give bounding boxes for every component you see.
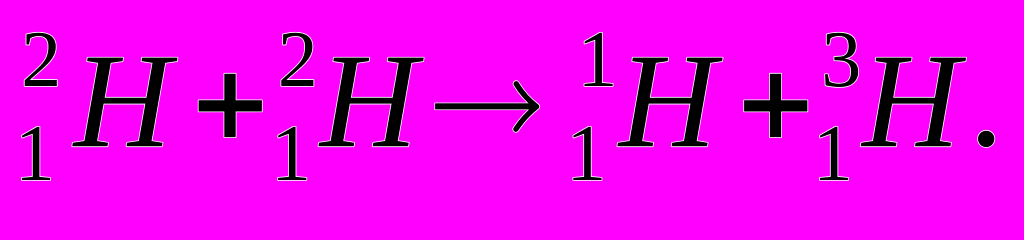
svg-text:H: H: [860, 26, 966, 176]
svg-text:2: 2: [21, 15, 61, 104]
svg-text:1: 1: [566, 109, 606, 198]
period: [978, 131, 994, 147]
svg-text:1: 1: [271, 109, 311, 198]
svg-text:1: 1: [813, 109, 853, 198]
svg-text:H: H: [617, 26, 723, 176]
right arrow: [434, 84, 539, 129]
plus sign 1: [199, 74, 262, 137]
svg-text:1: 1: [15, 109, 55, 198]
svg-text:3: 3: [821, 15, 861, 104]
svg-text:2: 2: [278, 15, 318, 104]
svg-text:H: H: [72, 26, 178, 176]
svg-text:1: 1: [577, 15, 617, 104]
plus sign 2: [744, 74, 807, 137]
svg-text:H: H: [318, 26, 424, 176]
